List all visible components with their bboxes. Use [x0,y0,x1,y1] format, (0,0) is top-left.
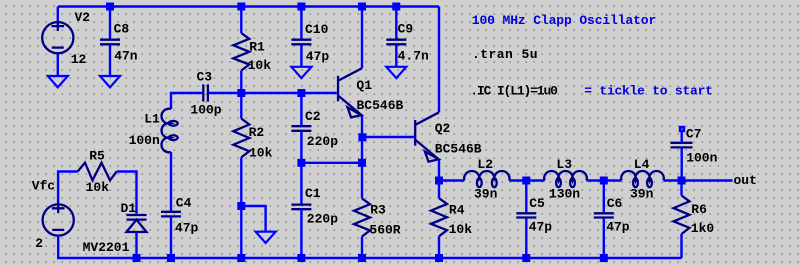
svg-text:1k0: 1k0 [691,221,715,236]
junction Q1 emitter to Q2 base [358,133,366,141]
junction bottom rail at R3 [358,254,366,262]
wire C2 bottom to C1 top [300,131,302,204]
svg-text:47p: 47p [175,221,199,236]
wire C7 leads [681,130,683,181]
svg-text:C10: C10 [305,22,329,37]
junction bottom rail at C6 [600,254,608,262]
svg-text:47p: 47p [306,49,330,64]
junction R2 ground tap [237,202,245,210]
svg-text:C5: C5 [529,196,545,211]
junction top rail at C8 [106,3,114,11]
svg-text:V2: V2 [75,10,91,25]
wire R2 top lead [240,93,242,119]
voltage source V2 [42,10,90,67]
svg-text:Q2: Q2 [435,121,451,136]
svg-text:C1: C1 [305,186,321,201]
svg-text:12: 12 [71,52,87,67]
wire R4 bottom [438,236,440,258]
node marker C7 open pin [679,126,685,132]
capacitor C4 [161,195,199,235]
inductor L1 [129,109,178,153]
capacitor C9 [386,22,429,64]
wire C3 left to L1 top [171,93,202,109]
svg-text:= tickle to start: = tickle to start [584,83,712,98]
svg-text:100n: 100n [686,151,717,166]
svg-text:.IC I(L1)=1u0: .IC I(L1)=1u0 [470,83,558,98]
ground under C9 [386,67,406,78]
wire jog to ground from R2 bottom [241,206,265,232]
junction bottom rail at C5 [522,254,530,262]
svg-text:R6: R6 [691,202,707,217]
wire emitter node to L2 [439,179,464,181]
wire R6 leads [680,181,682,259]
resistor R2 [233,119,272,161]
svg-text:560R: 560R [369,222,400,237]
wire mid rail C3 to Q1 base [209,92,337,94]
varactor diode D1 [83,201,147,255]
wire R5 left lead and Vfc top lead [58,172,78,205]
junction mid rail at R1/R2 [237,89,245,97]
svg-text:220p: 220p [307,134,338,149]
ground at R2 [256,232,276,243]
svg-text:4.7n: 4.7n [398,48,429,63]
capacitor C6 [594,196,630,235]
wire V2 bottom lead [57,53,59,77]
capacitor C5 [516,196,552,235]
junction bottom rail at R4 [435,254,443,262]
wire C5 leads [525,181,527,259]
transistor Q2 [415,112,482,161]
wire Q2 emitter down through R4 top [438,160,440,199]
svg-text:L1: L1 [144,112,160,127]
junction top rail at Q1 collector [358,3,366,11]
svg-text:D1: D1 [121,201,137,216]
svg-text:C3: C3 [197,69,213,84]
wire D1 bottom [135,232,137,258]
resistor R5 [78,149,117,195]
svg-text:C8: C8 [114,22,130,37]
junction top rail at R1 [237,3,245,11]
wire bottom ground rail [57,257,682,259]
svg-text:.tran 5u: .tran 5u [472,47,538,62]
wire R3 bottom [361,237,363,259]
svg-text:R4: R4 [449,203,465,218]
junction mid rail at C2 [297,89,305,97]
svg-text:R2: R2 [249,125,265,140]
svg-text:R3: R3 [370,203,386,218]
resistor R4 [431,198,472,237]
capacitor C8 [100,22,138,64]
wire C8 leads [109,7,111,77]
svg-text:10k: 10k [449,222,473,237]
junction top rail at C9 [392,3,400,11]
junction Q2 emitter node at R4 [435,177,443,185]
transistor Q1 [338,68,403,117]
wire C2 top lead [300,93,302,126]
svg-text:47n: 47n [114,48,138,63]
wire Q1 emitter down through R3 top [361,116,363,199]
junction filter node at C6 [600,177,608,185]
wire L1 bottom to C4 [170,152,172,211]
wire right drop to Q2 collector [438,7,440,113]
capacitor C1 [291,186,338,226]
svg-text:BC546B: BC546B [435,142,482,157]
svg-text:10k: 10k [248,58,272,73]
wire R5 right lead down to D1 [117,172,137,214]
svg-text:R1: R1 [249,39,265,54]
wire Q1 collector lead [361,7,363,69]
svg-text:C9: C9 [398,22,414,37]
svg-text:47p: 47p [529,220,553,235]
junction C2/C1 node [297,159,305,167]
junction top rail at C10 [297,3,305,11]
wire C6 node to L4 [604,179,622,181]
svg-text:130n: 130n [549,186,580,201]
wire out stub [682,179,733,181]
junction bottom rail at C4 [167,254,175,262]
svg-text:MV2201: MV2201 [83,240,130,255]
junction bottom rail at R2 [237,254,245,262]
wire emitter tap to C2/C1 node [301,162,362,164]
svg-text:220p: 220p [307,212,338,227]
wire C1 bottom [300,209,302,258]
svg-text:BC546B: BC546B [357,98,404,113]
resistor R3 [354,198,401,237]
wire L4 to out node [664,179,682,181]
wire L2 to C5 node [509,179,526,181]
capacitor C10 [291,22,329,64]
capacitor C3 [190,69,221,117]
svg-text:out: out [734,173,757,188]
svg-text:47p: 47p [606,220,630,235]
junction filter node at C5 [522,177,530,185]
svg-text:Vfc: Vfc [32,179,56,194]
inductor L3 [544,157,587,201]
wire R2 bottom to rail [240,157,242,258]
junction bottom rail at D1 [133,254,141,262]
ground under C10 [291,67,311,78]
svg-text:39n: 39n [474,186,498,201]
junction bottom rail at C1 [297,254,305,262]
svg-text:L2: L2 [477,157,493,172]
svg-text:R5: R5 [89,149,105,164]
svg-text:100n: 100n [129,133,160,148]
svg-text:L4: L4 [634,157,650,172]
svg-text:39n: 39n [630,186,654,201]
svg-text:C4: C4 [176,195,192,210]
wire V2 top lead [57,7,59,23]
voltage source Vfc [32,179,74,251]
svg-text:100 MHz Clapp Oscillator: 100 MHz Clapp Oscillator [472,13,656,28]
wire C9 leads [395,7,397,68]
wire top supply rail [58,5,439,7]
svg-text:C7: C7 [686,127,702,142]
capacitor C7 [671,127,718,166]
wire C10 leads [300,7,302,68]
wire C6 leads [603,181,605,259]
junction output node at C7/R6 [678,177,686,185]
resistor R1 [233,33,271,73]
svg-text:2: 2 [35,236,43,251]
wire C4 bottom [170,217,172,259]
resistor R6 [674,196,715,237]
junction emitter node at R3 [358,159,366,167]
svg-text:10k: 10k [249,146,273,161]
inductor L2 [464,157,509,201]
ground under C8 [100,76,120,87]
inductor L4 [621,157,664,201]
capacitor C2 [291,109,338,149]
svg-text:C6: C6 [607,196,623,211]
svg-text:Q1: Q1 [356,78,372,93]
ground under V2 [48,76,68,87]
svg-text:100p: 100p [190,103,221,118]
wire R1 leads [240,7,242,94]
svg-text:10k: 10k [86,180,110,195]
wire C5 node to L3 [526,179,544,181]
svg-text:C2: C2 [305,109,321,124]
svg-text:L3: L3 [556,157,572,172]
wire L3 to C6 node [587,179,604,181]
wire Q2 base wire [362,136,414,138]
wire Vfc bottom lead [57,235,59,258]
